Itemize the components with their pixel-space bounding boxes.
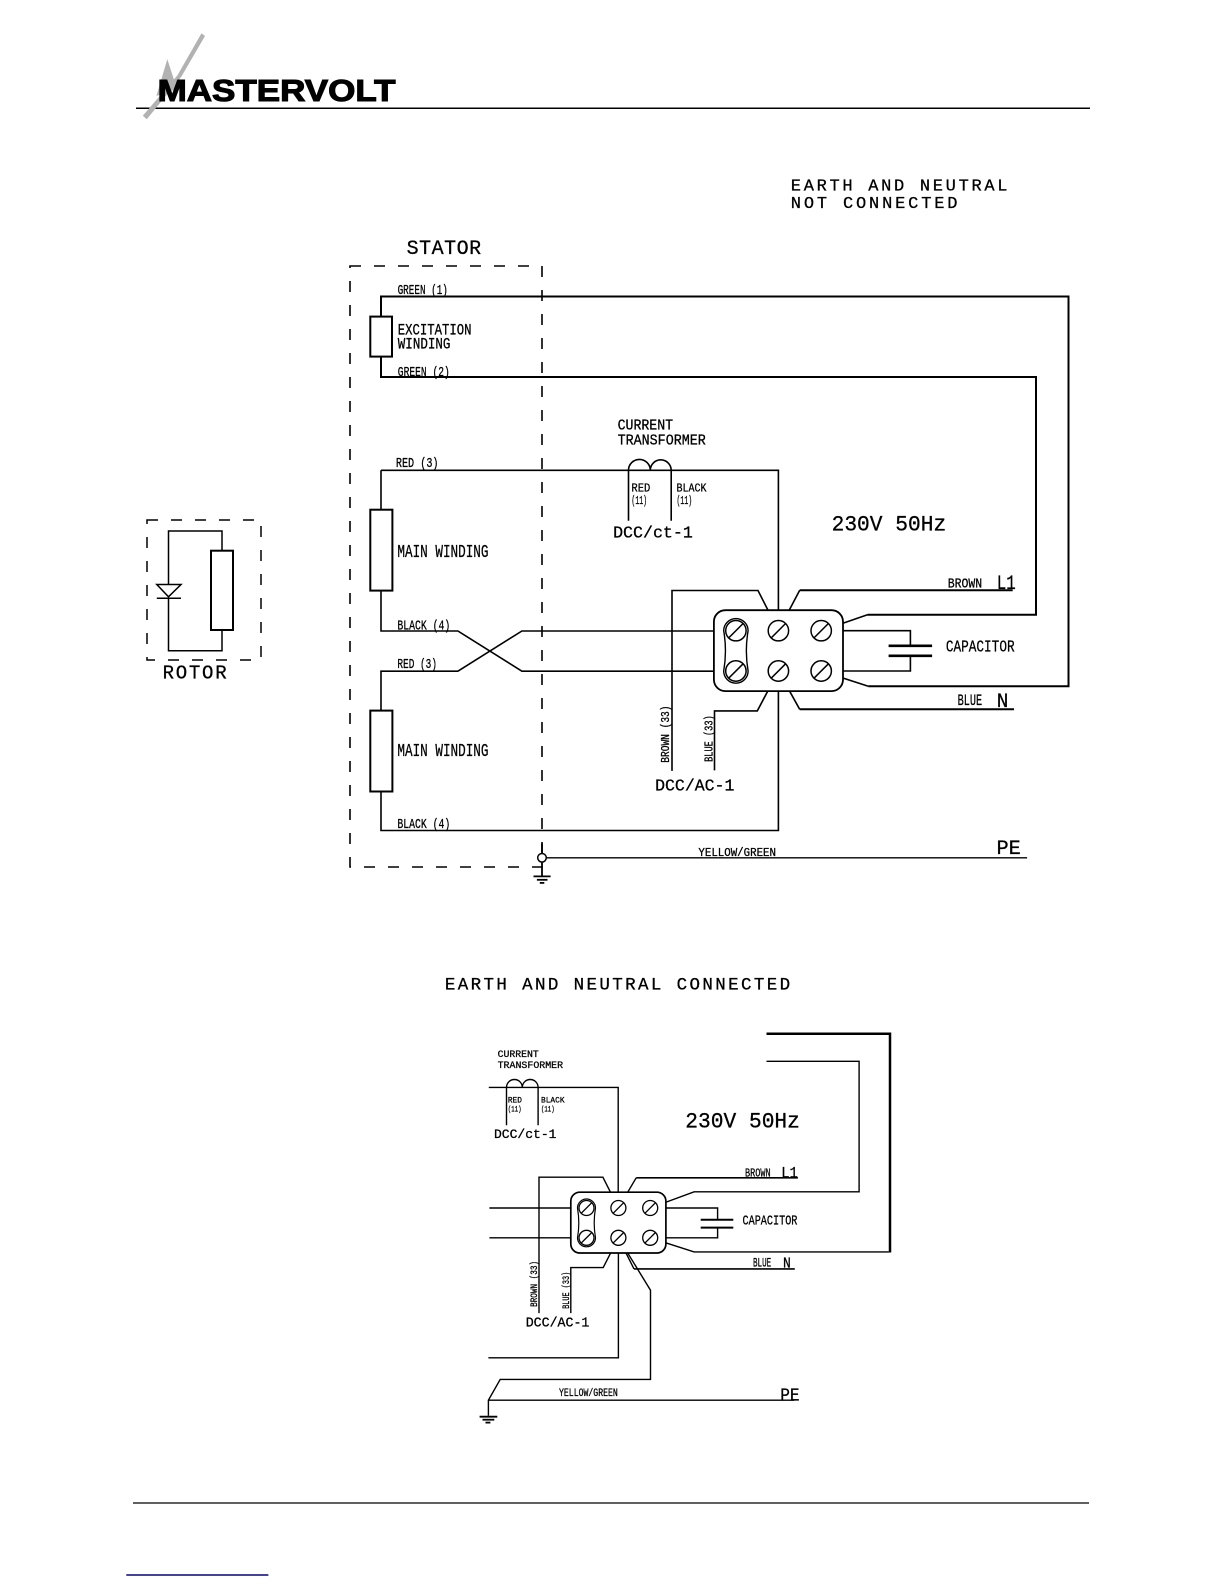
svg-text:(11): (11) xyxy=(677,494,693,508)
svg-text:N: N xyxy=(997,691,1009,714)
svg-text:MASTERVOLT: MASTERVOLT xyxy=(158,73,396,108)
svg-text:GREEN (1): GREEN (1) xyxy=(398,284,448,299)
svg-text:EARTH AND NEUTRAL: EARTH AND NEUTRAL xyxy=(791,178,1008,197)
svg-text:L1: L1 xyxy=(781,1165,798,1183)
svg-text:BROWN: BROWN xyxy=(948,577,982,593)
svg-text:MAIN WINDING: MAIN WINDING xyxy=(397,742,488,762)
svg-text:BLUE: BLUE xyxy=(753,1255,771,1270)
svg-text:YELLOW/GREEN: YELLOW/GREEN xyxy=(698,847,776,860)
svg-text:PE: PE xyxy=(780,1387,799,1407)
svg-text:WINDING: WINDING xyxy=(398,336,451,354)
svg-text:ROTOR: ROTOR xyxy=(163,663,227,685)
svg-text:L1: L1 xyxy=(997,573,1016,596)
svg-text:CAPACITOR: CAPACITOR xyxy=(743,1214,798,1229)
svg-text:RED (3): RED (3) xyxy=(397,658,437,673)
svg-text:BROWN (33): BROWN (33) xyxy=(529,1261,541,1307)
svg-text:BLUE (33): BLUE (33) xyxy=(703,715,716,762)
svg-text:DCC/ct-1: DCC/ct-1 xyxy=(494,1127,557,1142)
svg-text:230V 50Hz: 230V 50Hz xyxy=(685,1110,800,1135)
svg-text:STATOR: STATOR xyxy=(407,238,482,261)
svg-text:BLUE: BLUE xyxy=(958,692,983,710)
svg-text:MAIN WINDING: MAIN WINDING xyxy=(397,543,488,563)
svg-text:230V 50Hz: 230V 50Hz xyxy=(832,513,947,538)
svg-text:CAPACITOR: CAPACITOR xyxy=(946,638,1015,657)
svg-text:PE: PE xyxy=(997,838,1021,861)
svg-text:TRANSFORMER: TRANSFORMER xyxy=(498,1060,564,1072)
svg-text:TRANSFORMER: TRANSFORMER xyxy=(618,433,706,449)
svg-text:(11): (11) xyxy=(631,494,647,508)
svg-text:DCC/AC-1: DCC/AC-1 xyxy=(526,1316,590,1332)
svg-text:DCC/AC-1: DCC/AC-1 xyxy=(655,778,734,797)
svg-text:BROWN (33): BROWN (33) xyxy=(660,706,673,763)
svg-text:BLACK (4): BLACK (4) xyxy=(397,818,450,833)
svg-text:EARTH AND NEUTRAL CONNECTED: EARTH AND NEUTRAL CONNECTED xyxy=(445,976,790,996)
svg-text:N: N xyxy=(783,1256,791,1273)
svg-text:BROWN: BROWN xyxy=(745,1167,771,1181)
svg-text:(11): (11) xyxy=(541,1104,555,1114)
svg-text:YELLOW/GREEN: YELLOW/GREEN xyxy=(559,1388,618,1400)
svg-text:BLUE (33): BLUE (33) xyxy=(561,1272,573,1309)
svg-text:RED (3): RED (3) xyxy=(396,457,439,472)
svg-text:BLACK (4): BLACK (4) xyxy=(397,620,450,635)
svg-text:GREEN (2): GREEN (2) xyxy=(398,366,450,381)
svg-text:CURRENT: CURRENT xyxy=(618,419,674,435)
svg-text:DCC/ct-1: DCC/ct-1 xyxy=(613,524,693,543)
svg-text:(11): (11) xyxy=(508,1104,522,1114)
